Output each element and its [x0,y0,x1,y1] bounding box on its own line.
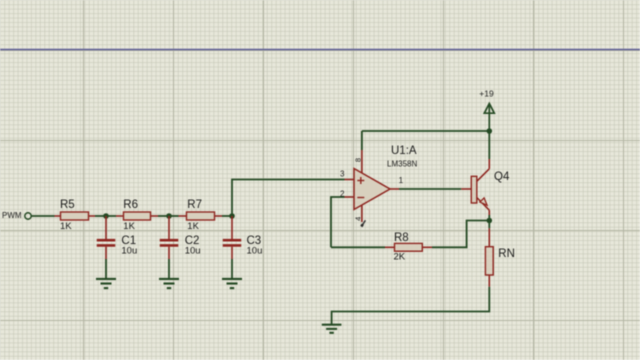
op-amp plus mark [357,177,364,184]
value LM358N [387,160,417,169]
pin stub 2 [345,196,355,198]
svg-text:10u: 10u [121,246,137,257]
svg-text:1K: 1K [123,221,135,232]
capacitor C1 [97,216,116,259]
svg-text:R8: R8 [394,232,409,244]
wire pin 2 from R8 net [331,197,345,247]
resistor R8 [385,243,432,251]
label RN [498,248,515,260]
power arrow +19 [484,104,494,132]
capacitor C2 [160,216,179,259]
wire node B to R7 [169,215,179,217]
svg-text:+19: +19 [479,89,494,99]
sheet border line [0,49,640,51]
ground (C1) [96,279,116,288]
wire R8 left to pin2 riser [331,246,385,248]
node B junction [166,213,172,219]
ground (C3) [222,279,242,288]
svg-text:1K: 1K [187,221,199,232]
label C2 [185,235,200,247]
ground (C2) [159,279,179,288]
terminal PWM [25,213,31,219]
wire R7 to node C [222,215,232,217]
wire Q4 emitter to node E [488,215,490,221]
label C3 [247,235,262,247]
value 1K (R7) [187,221,199,232]
svg-text:8: 8 [354,158,363,162]
svg-text:R6: R6 [123,199,138,211]
pin number 2 [340,189,345,198]
pin stub 3 [345,179,355,181]
value 1K (R5) [60,221,72,232]
wire node C up and right to op-amp pin 3 [232,180,345,217]
pin number 1 [399,176,404,185]
label R5 [60,199,75,211]
resistor R7 [179,212,223,220]
svg-text:10u: 10u [247,246,263,257]
value 10u (C3) [247,246,263,257]
wire C2 to ground [168,259,170,278]
pin number 8 [354,158,363,162]
op-amp U1 body [354,169,390,210]
wire node E to RN [488,221,490,229]
svg-text:RN: RN [498,248,515,260]
svg-text:U1:A: U1:A [391,145,417,157]
label C1 [121,235,136,247]
wire power rail to op-amp pin 8 [362,130,489,132]
svg-text:2: 2 [340,189,345,198]
wire op-amp output to Q4 base [399,188,461,190]
pin 4 tick [361,220,365,226]
label U1:A [391,145,417,157]
svg-text:3: 3 [340,170,345,179]
node A junction [103,213,109,219]
value 10u (C2) [185,246,201,257]
svg-text:1K: 1K [60,221,72,232]
svg-text:10u: 10u [185,246,201,257]
ground (bottom net) [322,325,342,333]
node D junction (power rail) [487,128,493,134]
svg-text:R7: R7 [187,199,202,211]
svg-text:LM358N: LM358N [387,160,417,169]
wire C1 to ground [105,259,107,278]
output pin stub 1 [390,188,399,190]
label R8 [394,232,409,244]
capacitor C3 [223,216,242,259]
wire PWM to R5 [32,215,55,217]
label R7 [187,199,202,211]
wire node A to R6 [106,215,116,217]
wire R6 to node B [158,215,169,217]
pin 8 stub [361,131,363,173]
pin number 4 [354,217,363,221]
resistor R5 [55,212,96,220]
resistor R6 [116,212,158,220]
value 1K (R6) [123,221,135,232]
svg-text:Q4: Q4 [494,171,510,183]
wire power rail down to Q4 collector [488,131,490,159]
wire node E to R8 right [432,221,489,248]
wire R5 to node A [95,215,106,217]
op-amp minus mark [357,197,364,199]
svg-text:R5: R5 [60,199,75,211]
transistor Q4 [461,159,489,215]
svg-text:2K: 2K [394,252,406,263]
svg-text:1: 1 [399,176,404,185]
label Q4 [494,171,510,183]
svg-text:PWM: PWM [2,211,22,220]
resistor RN [485,228,493,286]
power +19 label [479,89,494,99]
wire C3 to ground [231,259,233,278]
terminal PWM label [2,211,22,220]
label R6 [123,199,138,211]
node C junction [229,213,235,219]
pin 4 stub [361,205,363,222]
value 10u (C1) [121,246,137,257]
node E junction [487,218,493,224]
wire RN bottom to ground run [332,287,490,324]
svg-text:4: 4 [354,217,363,221]
pin number 3 [340,170,345,179]
value 2K (R8) [394,252,406,263]
